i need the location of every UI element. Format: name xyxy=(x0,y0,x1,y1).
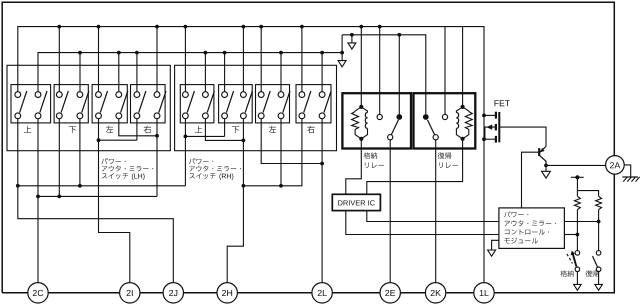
wire: LH sw4 down xyxy=(79,119,81,186)
wire: sw3 down xyxy=(58,119,60,197)
wire: transistor base to module xyxy=(522,152,540,208)
switch top contact xyxy=(203,92,209,98)
wire: w2-end to ground / relay contact feed riser xyxy=(341,35,343,61)
switch unit box xyxy=(11,85,51,123)
label: power outer mirror switch (LH) xyxy=(101,158,125,164)
relay box: retract relay xyxy=(342,93,411,148)
wire: ground stem xyxy=(351,35,353,43)
FET body lead with arrow xyxy=(485,127,496,139)
wire: LH sw8 down to bus C xyxy=(156,119,158,197)
label 右 xyxy=(307,126,314,133)
wire: LH sw5-sw7 link xyxy=(99,119,137,141)
switch top contact xyxy=(258,92,264,98)
wire: FET gate to transistor xyxy=(499,127,546,146)
wire: DRIVER IC to module (upper) xyxy=(367,211,499,222)
ground under wire3 xyxy=(348,43,356,49)
switch bottom contact xyxy=(278,113,284,119)
switch top contact xyxy=(35,92,41,98)
return relay blade xyxy=(428,120,435,135)
label FET xyxy=(495,100,510,106)
switch top contact xyxy=(154,92,160,98)
blade xyxy=(593,256,598,267)
FET drain lead xyxy=(484,114,496,116)
label 下 xyxy=(232,126,239,133)
wire: to ground xyxy=(576,272,578,285)
label module line1 xyxy=(504,211,528,217)
junction xyxy=(279,184,283,188)
switch bottom contact xyxy=(299,113,305,119)
label retract xyxy=(560,270,573,276)
wire: return coil to DRIVER IC xyxy=(367,139,463,195)
switch unit box xyxy=(219,85,253,123)
wire: right resistor down xyxy=(598,210,600,250)
switch bottom contact xyxy=(203,113,209,119)
switch bottom contact xyxy=(56,113,62,119)
junction node xyxy=(242,184,246,188)
wire: top bus 2 (ground bus) xyxy=(38,53,342,92)
retract relay contact common xyxy=(388,135,393,140)
switch bottom contact xyxy=(222,113,228,119)
wire: drop from bus2 to switch xyxy=(321,53,323,92)
wire: bus1 to retract relay coil xyxy=(360,27,362,107)
wire: sw2 down to 2C xyxy=(37,119,39,283)
switch unit box xyxy=(296,85,331,123)
switch blade xyxy=(207,91,214,113)
junction with module wire xyxy=(576,233,580,237)
switch blade xyxy=(82,91,89,113)
return relay contact fixed xyxy=(442,114,447,119)
switch top contact xyxy=(183,92,189,98)
wire: RH sw4-sw6-sw7 bus xyxy=(243,119,302,186)
junction xyxy=(155,134,159,138)
switch blade xyxy=(139,91,146,113)
wire: drop from bus1 to switch xyxy=(242,27,244,92)
ground under wire2 end xyxy=(338,61,346,67)
wire: bus1 to return relay coil xyxy=(462,27,464,107)
switch top contact xyxy=(56,92,62,98)
transistor Q1 (PNP) xyxy=(538,148,540,156)
wire: retract relay common to 2E xyxy=(389,140,391,283)
switch blade xyxy=(40,91,47,113)
wire: drop from bus2 to switch xyxy=(79,53,81,92)
switch unit box xyxy=(54,85,88,123)
label: power outer mirror switch (RH) xyxy=(189,158,213,164)
junction xyxy=(320,162,324,166)
switch top contact xyxy=(96,92,102,98)
wire: drop from bus1 to switch xyxy=(98,27,100,92)
wire: RH sw4 down to 2H xyxy=(227,119,243,283)
junction xyxy=(78,184,82,188)
switch blade xyxy=(20,91,27,113)
wire: bus to 2C (sw2,sw3,sw8) xyxy=(38,195,157,197)
label 上 xyxy=(195,126,202,133)
wire: collector to ground xyxy=(545,165,547,171)
wire: collector node to 2A xyxy=(546,164,606,166)
junction xyxy=(36,195,40,199)
FET source lead xyxy=(484,138,496,140)
ground retract switch xyxy=(574,284,582,290)
switch bottom contact xyxy=(183,113,189,119)
switch bottom contact xyxy=(319,113,325,119)
switch bottom contact xyxy=(258,113,264,119)
wire: return relay common to 2K xyxy=(435,140,437,283)
wire: 2A to chassis ground xyxy=(624,165,631,177)
wire: drop from bus2 to switch xyxy=(204,53,206,92)
label 上 xyxy=(24,126,31,133)
switch blade xyxy=(187,91,194,113)
switch blade xyxy=(245,91,252,113)
switch unit box xyxy=(131,85,166,123)
switch blade xyxy=(324,91,331,113)
switch bottom contact xyxy=(241,113,247,119)
connector 2E xyxy=(380,283,400,303)
switch bottom contact xyxy=(15,113,21,119)
ground at module xyxy=(488,250,496,256)
wire: drop from bus1 to switch xyxy=(301,27,303,92)
wire: bus sw1/sw4/RHsw1 xyxy=(18,119,186,186)
transistor FET: drain/source rail xyxy=(483,115,485,282)
wire: relay movable-contact feed xyxy=(342,35,426,115)
wire: RH sw8 down to 2L xyxy=(321,119,323,283)
wire: to 2J xyxy=(18,186,174,283)
wire: RH sw5-sw8 link to 2L xyxy=(261,119,322,164)
switch top contact xyxy=(222,92,228,98)
junction xyxy=(97,138,101,142)
wire: RH sw2-sw4 link xyxy=(205,119,243,141)
label 左 xyxy=(106,126,113,133)
wire: module wires to resistor branches xyxy=(564,221,598,223)
wire: bus1 to return relay contact xyxy=(444,27,446,115)
wire: LH sw6-sw8 link xyxy=(119,119,157,136)
wire: RH sw6 down xyxy=(280,119,282,186)
wire: to ground xyxy=(598,272,600,285)
wire: module ground lead xyxy=(492,240,499,250)
switch top contact xyxy=(241,92,247,98)
switch blade xyxy=(283,91,290,113)
switch block box xyxy=(175,65,337,150)
switch blade xyxy=(100,91,107,113)
wire: DRIVER IC to module (lower) xyxy=(346,211,499,235)
wire: drop from bus1 to switch xyxy=(156,27,158,92)
connector 2L xyxy=(312,283,332,303)
FET drain node xyxy=(482,114,486,118)
switch: retract (manual) xyxy=(575,251,580,256)
retract relay blade xyxy=(391,120,398,135)
wire: retract coil to DRIVER IC xyxy=(346,139,362,195)
connector 2I xyxy=(120,283,140,303)
switch top contact xyxy=(319,92,325,98)
wire: drop from bus2 to switch xyxy=(136,53,138,92)
blade thick xyxy=(572,252,576,267)
connector 2J xyxy=(163,283,183,303)
switch bottom contact xyxy=(77,113,83,119)
junction xyxy=(16,184,20,188)
label return relay xyxy=(438,152,452,159)
FET source plate xyxy=(495,136,497,143)
FET body plate xyxy=(495,124,497,130)
connector 2A xyxy=(606,156,625,175)
switch bottom contact xyxy=(134,113,140,119)
junction xyxy=(184,135,188,139)
wire: drop from bus1 to switch xyxy=(260,27,262,92)
switch bottom contact xyxy=(116,113,122,119)
FET gate bar xyxy=(498,112,500,142)
switch unit box xyxy=(92,85,127,123)
relay box: return relay xyxy=(414,93,476,148)
switch unit box xyxy=(256,85,290,123)
wire: to retract relay contact xyxy=(398,35,400,115)
switch: return (manual) xyxy=(596,251,601,256)
switch block box xyxy=(7,65,170,150)
label 下 xyxy=(69,126,76,133)
wire: RH sw1 down joining bus, link to sw3 xyxy=(184,119,186,186)
junction ground tap xyxy=(350,33,354,37)
switch blade xyxy=(61,91,68,113)
IC: DRIVER IC box xyxy=(332,194,380,210)
retract relay coil xyxy=(355,107,361,112)
switch top contact xyxy=(15,92,21,98)
switch unit box xyxy=(180,85,214,123)
resistor R2 xyxy=(596,196,602,209)
switch top contact xyxy=(116,92,122,98)
switch top contact xyxy=(134,92,140,98)
wire: LH sw5 to 2I xyxy=(99,140,130,282)
ground at transistor xyxy=(542,171,551,178)
switch blade xyxy=(263,91,270,113)
switch blade xyxy=(159,91,166,113)
label retract relay xyxy=(364,152,377,159)
node: feed tap xyxy=(571,176,584,178)
junction w2/riser xyxy=(340,51,344,55)
connector 2H xyxy=(217,283,237,303)
wire: drop from bus2 to switch xyxy=(118,53,120,92)
blade dashed xyxy=(567,254,573,264)
wire: drop from bus2 to switch xyxy=(224,53,226,92)
return relay contact fed xyxy=(423,114,429,120)
wire: drop from bus1 to switch xyxy=(58,27,60,92)
connector 1L xyxy=(474,283,494,303)
wire: branch to right resistor xyxy=(577,191,598,197)
collector node xyxy=(544,164,548,168)
IC: power outer mirror control module xyxy=(499,208,565,249)
connector 2K xyxy=(425,283,445,303)
wire: top bus 1 (battery feed) xyxy=(18,27,484,116)
switch top contact xyxy=(278,92,284,98)
label DRIVER IC xyxy=(338,200,375,205)
wire: bus1 to retract relay contact xyxy=(379,27,381,115)
chassis ground xyxy=(622,176,638,178)
switch blade xyxy=(226,91,233,113)
ground return switch xyxy=(595,284,603,290)
label 右 xyxy=(144,126,151,133)
resistor R1 xyxy=(575,196,581,209)
wire: drop from bus2 to switch xyxy=(280,53,282,92)
return relay contact common xyxy=(433,135,438,140)
wire: RH sw1-sw3 link xyxy=(185,135,224,137)
FET drain plate xyxy=(495,112,497,119)
return relay coil xyxy=(463,107,469,112)
retract relay contact fed xyxy=(396,114,402,120)
switch bottom contact xyxy=(96,113,102,119)
switch blade xyxy=(121,91,128,113)
switch top contact xyxy=(77,92,83,98)
connector 2C xyxy=(28,283,48,303)
switch blade xyxy=(304,91,311,113)
switch top contact xyxy=(299,92,305,98)
wire: drop from bus1 to switch xyxy=(184,27,186,92)
retract relay contact fixed xyxy=(377,114,382,119)
junction with module wire xyxy=(597,220,601,224)
wire: left resistor branch (retract) xyxy=(576,177,578,196)
junction xyxy=(242,139,246,143)
FET source node xyxy=(482,137,486,141)
junction xyxy=(57,195,61,199)
switch bottom contact xyxy=(154,113,160,119)
label return xyxy=(586,270,599,276)
switch bottom contact xyxy=(35,113,41,119)
label 左 xyxy=(269,126,276,133)
